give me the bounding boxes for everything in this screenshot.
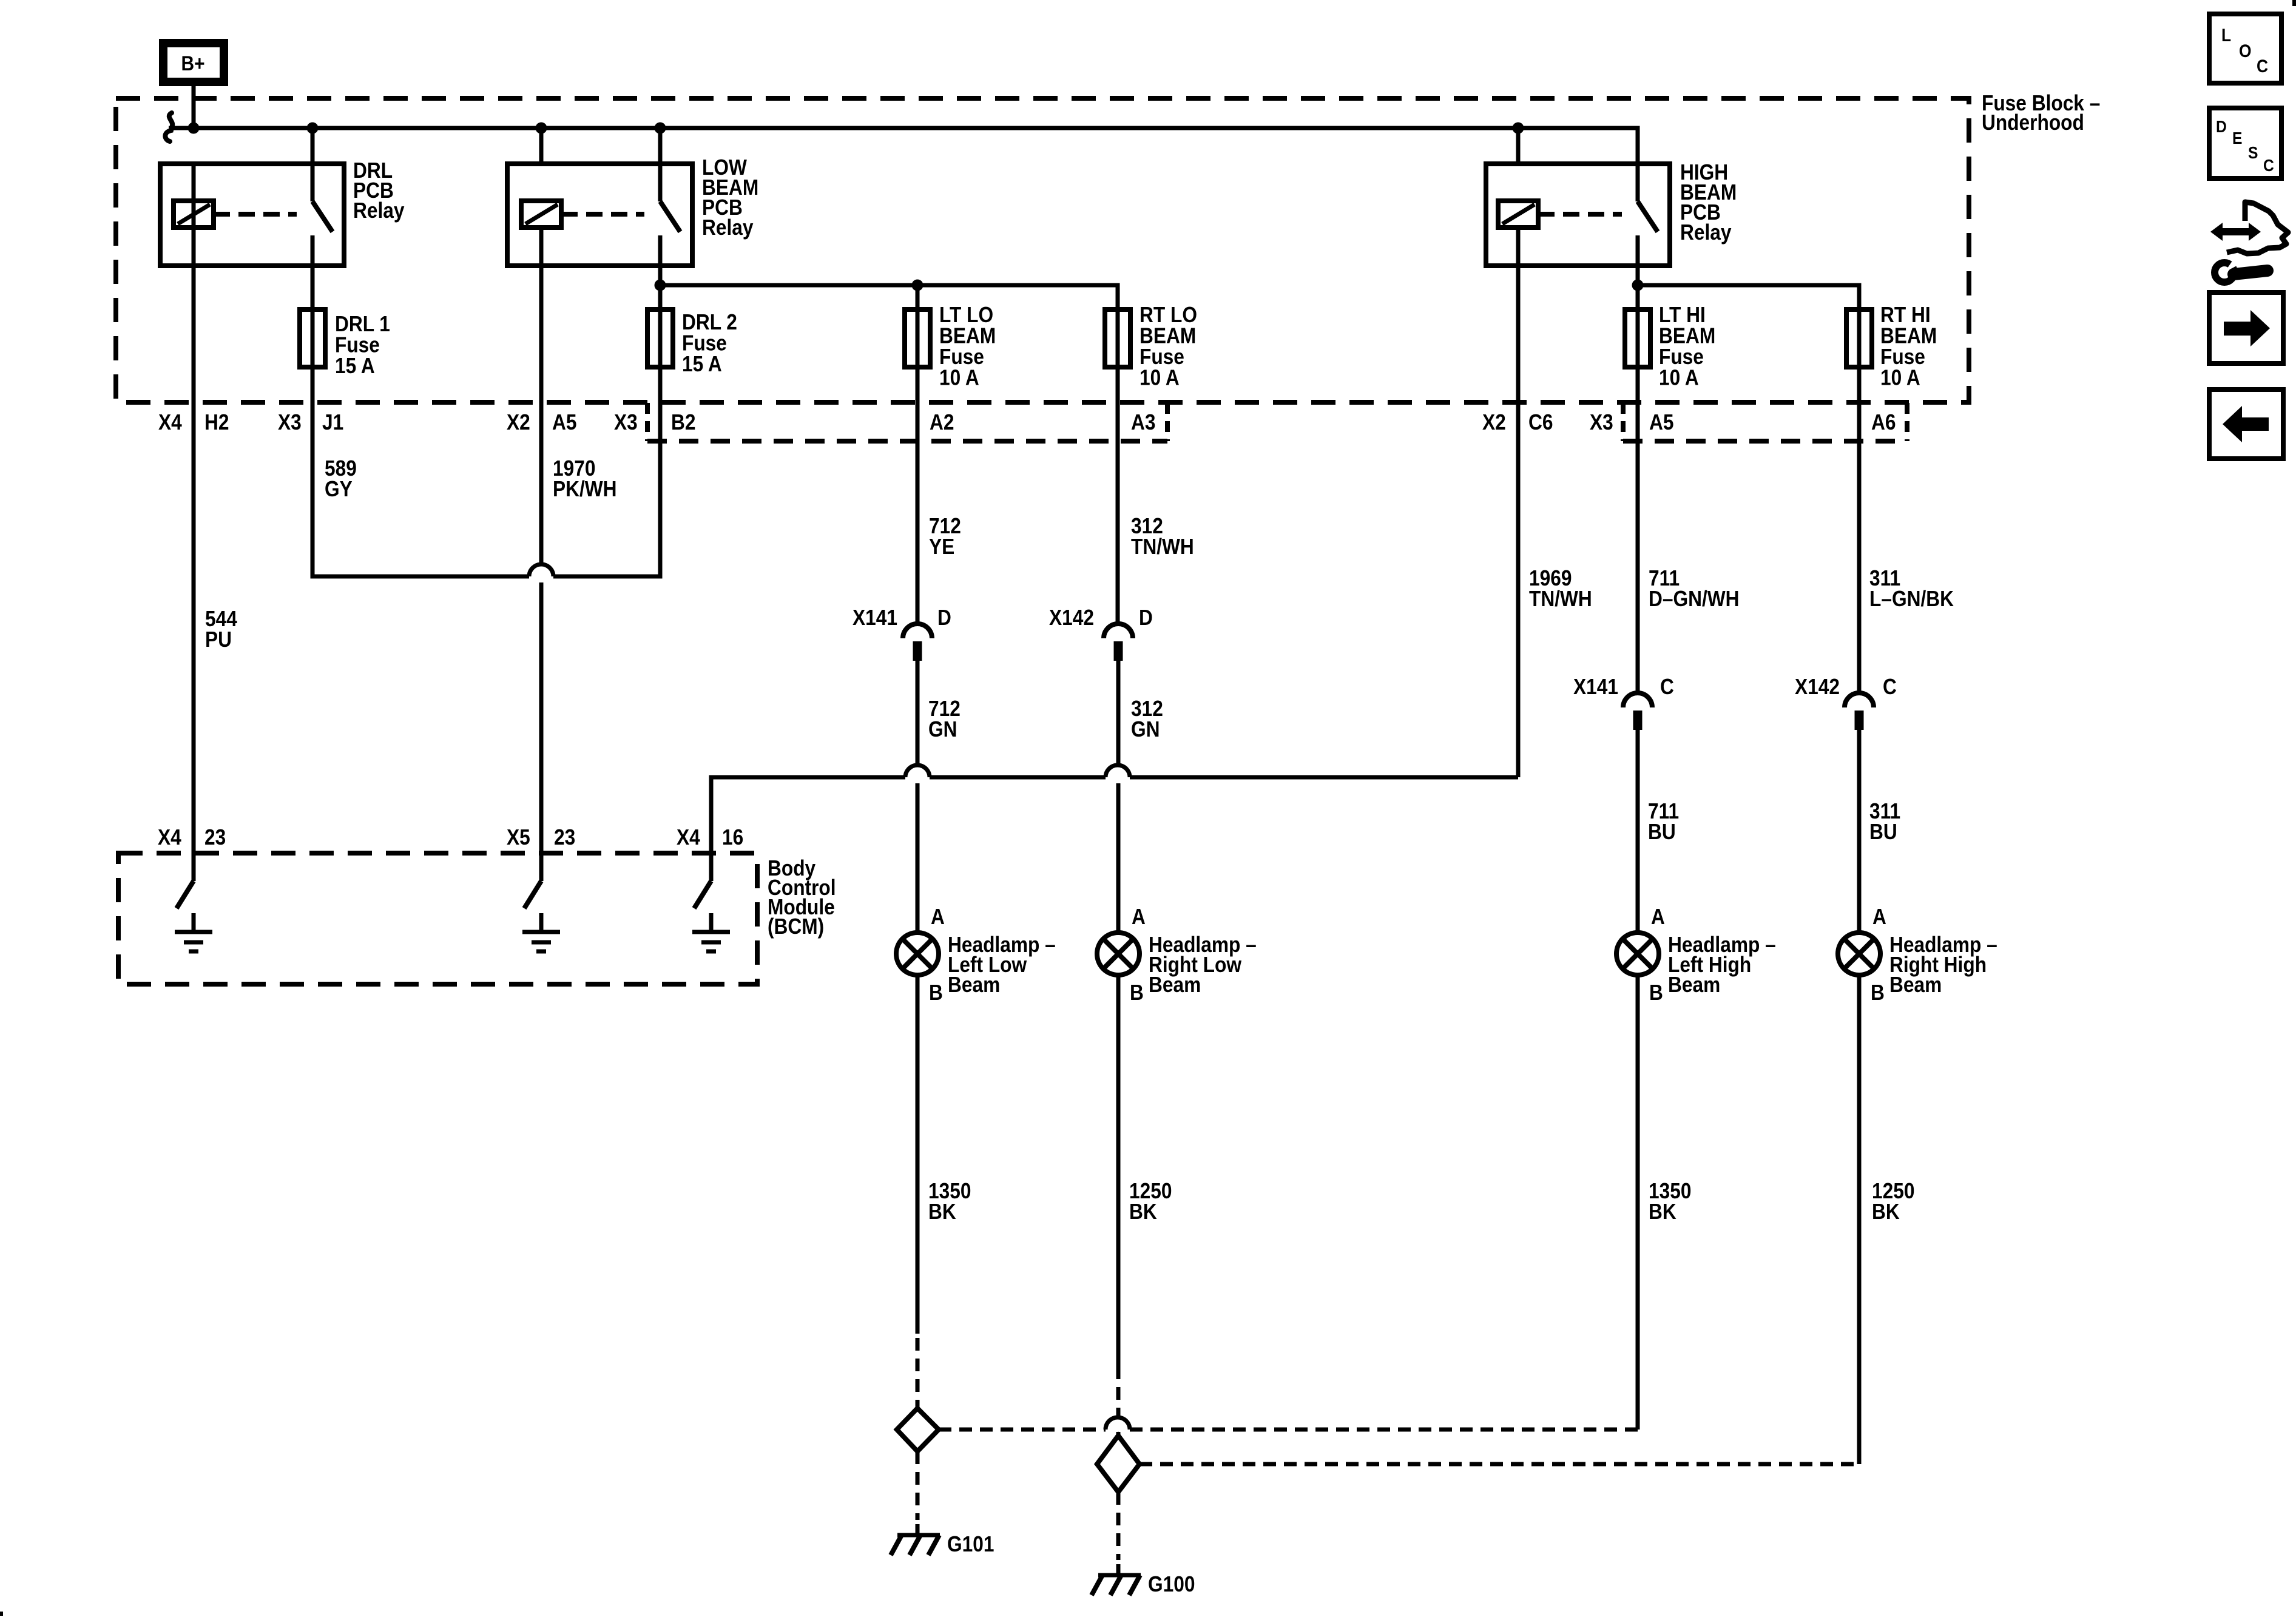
svg-text:X5: X5 — [507, 825, 530, 849]
svg-text:D: D — [2216, 117, 2227, 137]
svg-text:X3: X3 — [614, 410, 638, 434]
svg-text:L–GN/BK: L–GN/BK — [1869, 587, 1954, 611]
svg-text:G101: G101 — [947, 1532, 994, 1556]
icon box LOC — [2209, 14, 2281, 83]
svg-text:Relay: Relay — [353, 198, 405, 223]
svg-text:H2: H2 — [204, 410, 229, 434]
svg-text:10 A: 10 A — [939, 366, 979, 390]
junction node LT HI fuse feed — [1632, 280, 1644, 291]
svg-text:O: O — [2239, 40, 2252, 61]
svg-text:X3: X3 — [1590, 410, 1613, 434]
dashed wire S1 to G101 — [916, 1451, 920, 1520]
junction node DRL2 feed — [655, 280, 666, 291]
svg-text:TN/WH: TN/WH — [1131, 535, 1194, 559]
svg-text:A3: A3 — [1131, 410, 1155, 434]
lamp E1 Headlamp Left Low Beam — [896, 905, 1056, 1005]
fuse block underhood dashed box — [116, 98, 1969, 402]
wire label 712 YE — [929, 514, 961, 559]
wire 1350 BK left high lamp down — [1636, 975, 1640, 1430]
wire DRL relay switch to DRL 1 fuse — [311, 266, 315, 309]
svg-text:16: 16 — [722, 825, 743, 849]
svg-text:23: 23 — [204, 825, 226, 849]
svg-text:A: A — [931, 905, 945, 929]
svg-text:J1: J1 — [322, 410, 343, 434]
wire label 1969 TN/WH — [1529, 566, 1592, 611]
svg-text:B: B — [1649, 981, 1663, 1005]
wire 712 GN connector to left low lamp — [916, 661, 920, 933]
ground G100 — [1092, 1564, 1195, 1596]
pin label X5 23 (BCM) — [507, 825, 575, 849]
svg-text:B: B — [1130, 981, 1144, 1005]
wire label 1250 BK (right high) — [1872, 1179, 1914, 1224]
connector dashed box A5/A6 — [1623, 403, 1907, 441]
page corner mark top right — [2292, 0, 2296, 6]
svg-text:X141: X141 — [1573, 675, 1618, 699]
wire start squiggle at B+ feed — [165, 113, 172, 141]
inline connector X141 pin D — [853, 606, 951, 661]
wire label 544 PU — [205, 607, 237, 652]
lamp E4 Headlamp Right High Beam — [1838, 905, 1997, 1005]
icon box DESC — [2209, 108, 2281, 178]
wire LOW BEAM coil 1970 PK/WH down (upper part) — [539, 228, 544, 564]
svg-text:YE: YE — [929, 535, 954, 559]
svg-text:B+: B+ — [181, 52, 204, 75]
svg-text:C: C — [2257, 55, 2268, 76]
wire 1969 TN/WH horizontal run to BCM — [711, 777, 1518, 881]
wire label 311 L-GN/BK — [1869, 566, 1954, 611]
icon box arrow right — [2209, 292, 2283, 363]
wire 544 PU B+ through DRL coil to BCM — [192, 164, 196, 881]
fuse F2 DRL 2 15A — [647, 309, 737, 376]
svg-text:GY: GY — [325, 477, 353, 501]
svg-text:X4: X4 — [158, 410, 182, 434]
wire bus to DRL relay switch pin — [311, 128, 315, 164]
svg-text:10 A: 10 A — [1140, 366, 1180, 390]
wire label 1350 BK (left low) — [928, 1179, 971, 1224]
svg-text:B: B — [929, 981, 943, 1005]
splice S2 diamond — [1097, 1436, 1140, 1492]
wire HIGH BEAM relay output to high beam fuses — [1638, 266, 1859, 309]
svg-text:D: D — [937, 606, 951, 630]
inline connector X141 pin C — [1573, 675, 1674, 730]
svg-text:PK/WH: PK/WH — [553, 477, 617, 501]
wire label 312 TN/WH — [1131, 514, 1194, 559]
svg-text:10 A: 10 A — [1659, 366, 1699, 390]
svg-text:A6: A6 — [1871, 410, 1896, 434]
bus wire B+ feed across fuse block — [169, 128, 1638, 164]
junction node at B+ — [188, 123, 200, 134]
svg-text:Underhood: Underhood — [1982, 110, 2084, 135]
wire label 1350 BK (left high) — [1649, 1179, 1691, 1224]
svg-text:Beam: Beam — [1889, 973, 1942, 997]
wire label 1970 PK/WH — [553, 456, 617, 501]
svg-text:B2: B2 — [671, 410, 695, 434]
svg-text:X142: X142 — [1795, 675, 1840, 699]
svg-text:S: S — [2248, 143, 2258, 163]
wire 311 BU connector to right high lamp — [1857, 730, 1862, 933]
wire 1350 BK left low lamp to splice — [916, 975, 920, 1334]
relay K3 HIGH BEAM PCB Relay — [1486, 160, 1737, 266]
svg-text:23: 23 — [554, 825, 575, 849]
crossover hop over 312 GN — [1106, 765, 1130, 777]
wire bus to LOW BEAM relay coil pin — [539, 128, 544, 164]
svg-text:L: L — [2221, 24, 2231, 45]
svg-text:D–GN/WH: D–GN/WH — [1649, 587, 1740, 611]
wire label 711 BU — [1648, 799, 1679, 844]
svg-text:BK: BK — [1872, 1200, 1900, 1224]
svg-text:TN/WH: TN/WH — [1529, 587, 1592, 611]
relay K1 DRL PCB Relay — [160, 158, 405, 266]
wire label 312 GN — [1131, 697, 1163, 741]
svg-text:C6: C6 — [1528, 410, 1553, 434]
wire 1250 BK right low lamp down — [1116, 975, 1121, 1366]
svg-text:X141: X141 — [853, 606, 897, 630]
wire 711 D-GN/WH fuse LT HI to connector X141 — [1636, 367, 1640, 693]
svg-text:D: D — [1139, 606, 1153, 630]
svg-text:A2: A2 — [930, 410, 954, 434]
wire 1250 BK right high lamp down — [1857, 975, 1862, 1464]
svg-text:GN: GN — [1131, 717, 1160, 741]
ground G101 — [891, 1524, 994, 1556]
svg-text:X4: X4 — [158, 825, 181, 849]
junction node DRL relay switch — [307, 123, 319, 134]
svg-text:BU: BU — [1869, 820, 1897, 844]
junction node LT LO fuse feed — [912, 280, 923, 291]
svg-text:BK: BK — [1129, 1200, 1157, 1224]
wire 312 TN/WH fuse RT LO to connector X142 — [1116, 367, 1120, 624]
junction node HIGH BEAM relay coil — [1513, 123, 1524, 134]
pin label X4 16 (BCM) — [677, 825, 743, 849]
wire bus to HIGH BEAM relay coil pin — [1516, 128, 1521, 164]
BCM driver switch low beam output with ground — [522, 881, 560, 951]
wire label 589 GY — [325, 456, 357, 501]
svg-text:C: C — [1660, 675, 1674, 699]
wire label 712 GN — [928, 697, 961, 741]
wire 711 BU connector to left high lamp — [1636, 730, 1640, 933]
svg-text:A: A — [1651, 905, 1665, 929]
B+ battery terminal — [163, 43, 224, 82]
wire 589 GY fuse DRL1 output to DRL2 output — [312, 367, 660, 576]
label Body Control Module (BCM) — [768, 856, 836, 939]
svg-text:A5: A5 — [552, 410, 576, 434]
svg-text:Relay: Relay — [702, 215, 754, 240]
svg-text:E: E — [2232, 129, 2242, 148]
fuse F3 LT LO BEAM 10A — [905, 303, 996, 390]
svg-text:X3: X3 — [278, 410, 302, 434]
lamp E2 Headlamp Right Low Beam — [1097, 905, 1257, 1005]
pin label X4 23 (BCM) — [158, 825, 226, 849]
svg-text:A: A — [1872, 905, 1886, 929]
svg-text:A: A — [1132, 905, 1146, 929]
label Fuse Block - Underhood — [1982, 91, 2100, 135]
crossover hop over 712 GN — [905, 765, 930, 777]
svg-text:X2: X2 — [507, 410, 530, 434]
dashed ground bus from S1 to LT HI wire — [939, 1428, 1638, 1432]
svg-text:X142: X142 — [1049, 606, 1094, 630]
dashed wire to splice S2 — [1116, 1366, 1121, 1436]
svg-text:B: B — [1871, 981, 1885, 1005]
crossover hop 1970 wire over link — [529, 564, 553, 576]
inline connector X142 pin C — [1795, 675, 1897, 730]
svg-text:G100: G100 — [1148, 1572, 1195, 1596]
wire label 711 D-GN/WH — [1649, 566, 1740, 611]
wire 1970 PK/WH lower part to BCM — [539, 582, 544, 881]
svg-text:15 A: 15 A — [682, 352, 722, 376]
inline connector X142 pin D — [1049, 606, 1153, 661]
fuse F5 LT HI BEAM 10A — [1625, 303, 1715, 390]
svg-text:BK: BK — [928, 1200, 956, 1224]
icon box arrow left — [2209, 390, 2283, 459]
wire 712 YE fuse LT LO to connector X141 — [916, 367, 920, 624]
crossover hop ground bus over 1250 BK — [1106, 1417, 1130, 1430]
junction node LOW BEAM relay coil — [536, 123, 547, 134]
splice S1 diamond — [897, 1408, 939, 1451]
wire LOW BEAM relay output to DRL 2 fuse and low beam fuses — [660, 266, 1118, 309]
lamp E3 Headlamp Left High Beam — [1616, 905, 1776, 1005]
wire B+ drop to bus — [192, 86, 196, 128]
BCM driver switch high beam output with ground — [692, 881, 730, 951]
svg-text:C: C — [1883, 675, 1897, 699]
dashed wire S2 to G100 — [1116, 1492, 1121, 1560]
svg-text:Relay: Relay — [1680, 220, 1732, 245]
wire HIGH BEAM coil 1969 TN/WH down — [1516, 228, 1521, 777]
svg-text:Beam: Beam — [1149, 973, 1201, 997]
connector dashed box B2/A2/A3 — [647, 403, 1167, 441]
BCM driver switch DRL output with ground — [175, 881, 212, 951]
svg-text:BU: BU — [1648, 820, 1676, 844]
wire label 311 BU — [1869, 799, 1900, 844]
svg-text:BK: BK — [1649, 1200, 1676, 1224]
wire 311 L-GN/BK fuse RT HI to connector X142 — [1857, 367, 1862, 693]
svg-text:C: C — [2263, 156, 2274, 175]
svg-text:PU: PU — [205, 627, 232, 652]
fuse F1 DRL 1 15A — [300, 309, 390, 378]
svg-text:10 A: 10 A — [1880, 366, 1920, 390]
svg-text:Beam: Beam — [948, 973, 1000, 997]
wire bus to LOW BEAM relay switch pin — [658, 128, 663, 164]
svg-text:A5: A5 — [1649, 410, 1673, 434]
body control module dashed box — [118, 853, 757, 984]
dashed ground bus from S2 to RT HI wire — [1140, 1462, 1859, 1467]
junction node LOW BEAM relay switch — [655, 123, 666, 134]
fuse F4 RT LO BEAM 10A — [1105, 303, 1197, 390]
page mark bottom left — [0, 1612, 3, 1616]
svg-text:X4: X4 — [677, 825, 700, 849]
svg-text:X2: X2 — [1482, 410, 1506, 434]
wire 312 GN connector to right low lamp — [1116, 661, 1121, 933]
wire label 1250 BK (right low) — [1129, 1179, 1172, 1224]
fuse F6 RT HI BEAM 10A — [1846, 303, 1937, 390]
svg-text:(BCM): (BCM) — [768, 914, 824, 939]
svg-text:15 A: 15 A — [335, 354, 375, 378]
dashed wire to splice S1 — [916, 1338, 920, 1408]
relay K2 LOW BEAM PCB Relay — [507, 155, 758, 266]
icon schematic jump (double arrow, outline, wrench) — [2210, 202, 2288, 282]
svg-text:GN: GN — [928, 717, 957, 741]
svg-text:Beam: Beam — [1668, 973, 1720, 997]
